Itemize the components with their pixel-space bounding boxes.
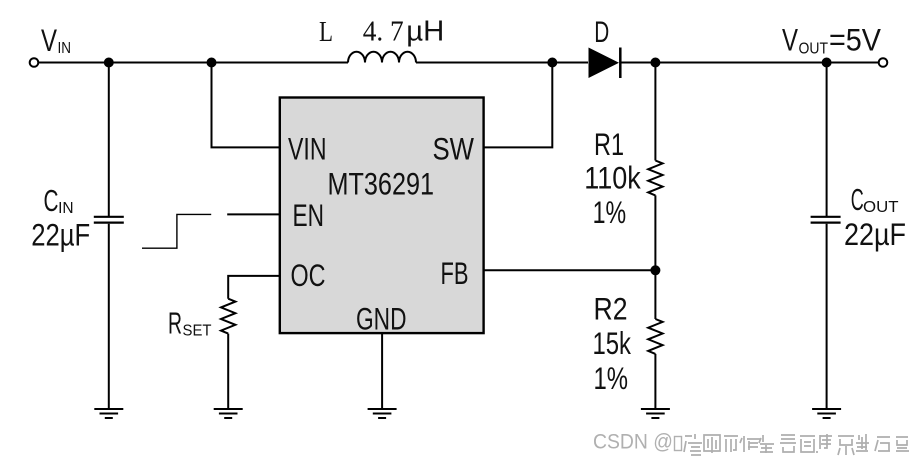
value 4.7uH xyxy=(363,15,445,47)
svg-text:IN: IN xyxy=(58,200,74,217)
svg-text:L: L xyxy=(319,16,333,48)
pin EN xyxy=(293,197,325,233)
capacitor COUT xyxy=(811,217,841,223)
svg-text:SW: SW xyxy=(433,131,475,167)
node input junction xyxy=(104,58,114,68)
node diode cathode junction xyxy=(650,58,660,68)
wire EN pin xyxy=(227,213,280,215)
label RSET xyxy=(168,306,212,341)
wire CIN branch lower xyxy=(108,224,110,409)
ground COUT xyxy=(812,409,841,418)
svg-text:MT36291: MT36291 xyxy=(328,166,435,202)
svg-text:110k: 110k xyxy=(584,160,641,196)
terminal VOUT output xyxy=(879,58,888,67)
label COUT xyxy=(851,182,899,217)
node SW junction xyxy=(547,58,557,68)
ground IC xyxy=(368,409,397,418)
pin SW xyxy=(433,131,475,167)
label CIN xyxy=(44,183,74,218)
wire OC pin xyxy=(228,276,280,299)
svg-text:22µF: 22µF xyxy=(31,217,90,253)
wire COUT upper xyxy=(826,63,828,217)
svg-text:VIN: VIN xyxy=(288,131,327,167)
wire COUT lower xyxy=(826,224,828,409)
node VIN pin junction xyxy=(207,58,217,68)
ground CIN xyxy=(94,409,123,418)
node FB junction xyxy=(650,265,660,275)
inductor L1 xyxy=(348,52,416,63)
pin GND xyxy=(356,301,407,337)
wire RSET to ground xyxy=(227,334,229,409)
svg-text:1%: 1% xyxy=(594,360,629,396)
svg-text:GND: GND xyxy=(356,301,407,337)
capacitor CIN xyxy=(94,217,124,223)
svg-text:C: C xyxy=(44,183,59,218)
svg-text:OC: OC xyxy=(291,257,326,293)
wire top rail xyxy=(39,62,879,64)
value CIN 22uF xyxy=(31,217,90,253)
wire GND pin xyxy=(381,334,383,409)
label L xyxy=(319,16,333,48)
label VIN net xyxy=(41,22,71,58)
tolerance R1 1% xyxy=(593,194,627,230)
svg-text:R1: R1 xyxy=(594,126,624,162)
wire SW pin xyxy=(483,63,552,148)
svg-text:15k: 15k xyxy=(593,325,632,361)
resistor R1 xyxy=(648,161,662,196)
svg-text:µH: µH xyxy=(406,15,444,47)
wire R2 lower xyxy=(654,354,656,409)
svg-text:=5V: =5V xyxy=(829,22,881,58)
resistor R2 xyxy=(648,319,662,354)
label R1 xyxy=(594,126,624,162)
IC U1 MT36291 body xyxy=(280,98,484,334)
value R2 15k xyxy=(593,325,632,361)
tolerance R2 1% xyxy=(594,360,629,396)
svg-text:IN: IN xyxy=(58,40,72,57)
svg-text:SET: SET xyxy=(183,323,213,340)
label D xyxy=(594,16,609,49)
resistor RSET xyxy=(221,299,235,334)
svg-text:1%: 1% xyxy=(593,194,627,230)
watermark CSDN xyxy=(593,430,673,454)
wire R2 upper xyxy=(654,270,656,319)
label MT36291 xyxy=(328,166,435,202)
svg-text:4. 7: 4. 7 xyxy=(363,15,404,47)
svg-text:C: C xyxy=(851,182,864,217)
label VOUT net xyxy=(782,22,881,58)
watermark logo box xyxy=(675,437,682,451)
value COUT 22uF xyxy=(844,216,906,252)
svg-text:22µF: 22µF xyxy=(844,216,906,252)
wire CIN branch upper xyxy=(108,63,110,217)
value R1 110k xyxy=(584,160,641,196)
enable step waveform xyxy=(142,214,211,248)
wire R1 upper xyxy=(654,63,656,161)
svg-text:R: R xyxy=(168,306,182,341)
terminal VIN input xyxy=(30,58,39,67)
svg-text:EN: EN xyxy=(293,197,325,233)
wire R1 lower xyxy=(654,195,656,270)
pin VIN xyxy=(288,131,327,167)
svg-text:FB: FB xyxy=(441,255,469,291)
label R2 xyxy=(594,291,628,327)
node COUT junction xyxy=(822,58,832,68)
diode D xyxy=(589,48,621,79)
pin OC xyxy=(291,257,326,293)
svg-text:CSDN @: CSDN @ xyxy=(593,430,673,454)
ground RSET xyxy=(214,409,243,418)
watermark company name glyphs xyxy=(684,434,909,455)
wire VIN pin branch xyxy=(212,63,280,148)
svg-text:V: V xyxy=(782,22,798,58)
svg-text:OUT: OUT xyxy=(863,199,899,216)
ground R2 xyxy=(641,409,670,418)
svg-text:D: D xyxy=(594,16,609,49)
wire FB pin xyxy=(483,269,655,271)
svg-text:V: V xyxy=(41,22,57,58)
svg-text:OUT: OUT xyxy=(799,41,829,58)
pin FB xyxy=(441,255,469,291)
svg-text:R2: R2 xyxy=(594,291,628,327)
